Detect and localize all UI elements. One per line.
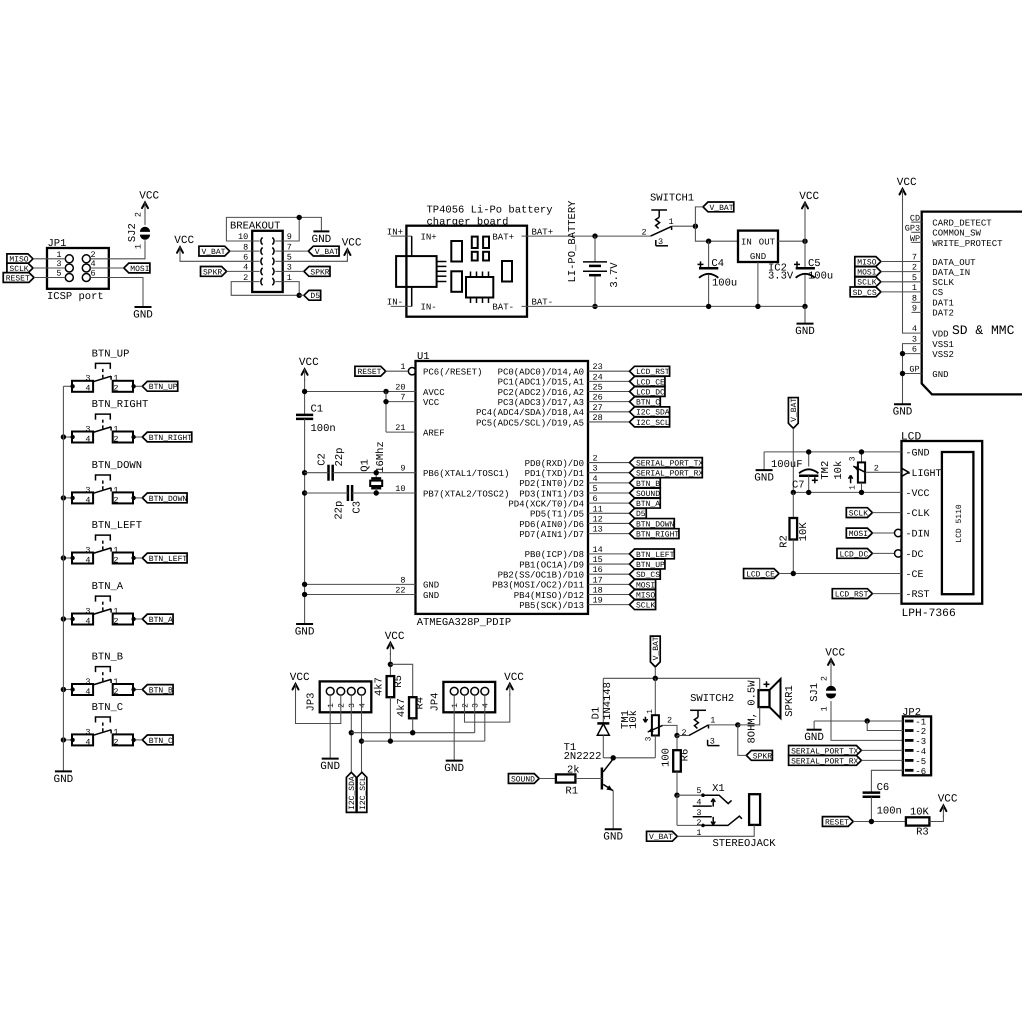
TP4056 usb connector drawing — [396, 236, 446, 306]
svg-text:BTN_UP: BTN_UP — [92, 348, 130, 360]
svg-text:8OHM, 0.5W: 8OHM, 0.5W — [747, 680, 759, 744]
net tag LCD_RST at U1 pin 23 — [630, 366, 670, 377]
svg-text:SWITCH2: SWITCH2 — [690, 693, 734, 705]
resistor R2 10K — [778, 492, 810, 573]
svg-text:4: 4 — [85, 434, 90, 444]
wire speaker bottom to junction — [738, 707, 760, 725]
svg-text:3: 3 — [85, 727, 90, 737]
svg-text:PC3(ADC3)/D17,A3: PC3(ADC3)/D17,A3 — [498, 398, 584, 408]
svg-text:1: 1 — [327, 703, 336, 708]
wire TM2 wiper to LIGHT — [865, 471, 901, 473]
wire R3 to VCC — [929, 816, 943, 822]
net tag BTN_RIGHT at U1 pin 13 — [630, 529, 680, 540]
JP4 pin numbers — [451, 703, 491, 708]
resistor R1 2k — [556, 764, 580, 797]
svg-text:1: 1 — [113, 545, 118, 555]
svg-text:JP1: JP1 — [48, 238, 67, 250]
svg-text:C7: C7 — [792, 480, 805, 492]
svg-text:ICSP port: ICSP port — [47, 291, 104, 303]
svg-text:3: 3 — [85, 485, 90, 495]
svg-text:-DC: -DC — [906, 550, 924, 561]
junction speaker node — [735, 722, 740, 727]
net tag LCD_DC at U1 pin 25 — [630, 387, 666, 398]
junction C7 top — [806, 449, 811, 454]
svg-text:GND: GND — [423, 591, 439, 601]
svg-text:R4: R4 — [415, 697, 427, 710]
svg-text:GND: GND — [320, 761, 340, 773]
wire U1 pin 17 to tag — [588, 583, 630, 585]
svg-text:D5: D5 — [310, 292, 320, 301]
wire audio bottom link — [603, 757, 655, 759]
wire VSS1 — [903, 335, 954, 405]
svg-text:10K: 10K — [910, 807, 930, 819]
wire U1 pin 5 to tag — [588, 492, 630, 494]
svg-text:PB6(XTAL1/TOSC1): PB6(XTAL1/TOSC1) — [423, 469, 509, 479]
svg-text:GND: GND — [295, 626, 315, 638]
svg-text:-CLK: -CLK — [906, 509, 930, 520]
net tag SOUND — [508, 774, 539, 785]
junction switch1 out — [693, 224, 698, 229]
svg-text:V_BAT: V_BAT — [710, 204, 734, 213]
U1 right pin names — [476, 368, 584, 611]
svg-text:GND: GND — [750, 252, 766, 262]
wire LCD GND row — [764, 451, 901, 453]
junction battery bottom — [592, 304, 597, 309]
junction battery top — [592, 233, 597, 238]
resistor R3 10K — [906, 807, 930, 839]
svg-text:-6: -6 — [915, 767, 926, 777]
wire U1 pin 15 to tag — [588, 563, 630, 565]
junction TM2 top — [859, 449, 864, 454]
net tag D5 breakout — [304, 290, 321, 301]
junction C5 bottom — [802, 304, 807, 309]
wire audio top rail — [603, 677, 759, 679]
TP4056 pin BAT- — [492, 298, 553, 313]
ground GND below JP4 pin1 — [444, 761, 464, 775]
wire BTN_C to tag — [131, 738, 142, 742]
svg-text:R2: R2 — [778, 535, 790, 548]
svg-text:VCC: VCC — [423, 398, 440, 408]
net tag BTN_LEFT — [142, 553, 187, 564]
svg-text:LCD: LCD — [901, 432, 922, 444]
svg-text:GP3: GP3 — [905, 224, 920, 234]
lcd pin names — [906, 448, 942, 601]
ground GND at T1 emitter — [603, 829, 623, 843]
wire BTN_DOWN to tag — [131, 496, 142, 500]
svg-text:R3: R3 — [916, 826, 929, 838]
ground GND at regulator rail — [795, 324, 815, 338]
svg-text:2: 2 — [681, 728, 686, 738]
svg-text:GND: GND — [53, 774, 73, 786]
svg-text:3: 3 — [85, 545, 90, 555]
svg-text:PD3(INT1)/D3: PD3(INT1)/D3 — [519, 489, 584, 499]
svg-text:2: 2 — [912, 263, 917, 273]
power VCC above SJ1 — [825, 647, 845, 671]
wire C2 to pin9 — [333, 472, 416, 474]
TP4056 resistor drawings — [451, 241, 462, 292]
wire BTN_LEFT to tag — [131, 556, 142, 560]
svg-text:MOSI: MOSI — [130, 265, 149, 274]
wire JP4 pin1 to GND — [453, 695, 455, 760]
wire BREAKOUT pin2 bottom loop — [231, 282, 299, 296]
svg-text:JP3: JP3 — [306, 693, 318, 712]
wire BTN_UP to tag — [131, 384, 142, 388]
svg-text:6: 6 — [912, 345, 917, 355]
net tag SPKR at speaker — [746, 751, 772, 762]
svg-text:GND: GND — [133, 309, 153, 321]
power VCC at regulator — [799, 191, 819, 215]
net tag SCLK — [7, 263, 33, 274]
svg-text:PB7(XTAL2/TOSC2): PB7(XTAL2/TOSC2) — [423, 489, 509, 499]
net tag SD_CS at SD — [850, 287, 881, 298]
wire rail to C2 — [305, 472, 329, 474]
svg-text:PC6(/RESET): PC6(/RESET) — [423, 368, 482, 378]
svg-text:BTN_LEFT: BTN_LEFT — [92, 520, 142, 532]
svg-text:1: 1 — [113, 424, 118, 434]
junction V_BAT VCC row — [791, 490, 796, 495]
junction R2 bottom — [791, 571, 796, 576]
ground GND at JP2 — [804, 721, 824, 744]
wire AVCC drop to VCC pin and AREF — [386, 392, 416, 433]
wire BTN_RIGHT to bus — [63, 435, 74, 439]
wire C1 to gnd rail — [304, 419, 306, 624]
wire button ground bus — [62, 386, 64, 771]
svg-text:TM2: TM2 — [820, 461, 832, 480]
svg-text:V_BAT: V_BAT — [790, 398, 799, 422]
svg-text:SOUND: SOUND — [511, 775, 535, 784]
svg-text:GND: GND — [444, 763, 464, 775]
JP3 pin circles — [326, 687, 365, 695]
wire VCC to pin6 — [180, 257, 252, 261]
svg-text:PC4(ADC4/SDA)/D18,A4: PC4(ADC4/SDA)/D18,A4 — [476, 408, 584, 418]
junction Q1 bottom — [374, 490, 379, 495]
wire RESET to pin1 bubble — [386, 370, 409, 372]
net tag I2C_SCL at U1 pin 28 — [630, 417, 670, 428]
svg-text:V_BAT: V_BAT — [649, 833, 673, 842]
TP4056 pin BAT+ — [492, 227, 553, 242]
svg-text:WRITE_PROTECT: WRITE_PROTECT — [932, 239, 1003, 249]
net tag BTN_C — [142, 735, 173, 746]
SD pin CD CARD_DETECT — [910, 214, 992, 229]
net tag MISO at SD — [855, 257, 881, 268]
junction Q1 top — [374, 470, 379, 475]
svg-text:SPKR: SPKR — [310, 268, 329, 277]
svg-text:D1: D1 — [590, 707, 602, 720]
svg-text:GND: GND — [932, 370, 948, 380]
svg-text:IN+: IN+ — [421, 232, 437, 242]
wire VSS2 — [903, 345, 954, 360]
wire R6 to jack — [676, 772, 678, 796]
junction jack pin5 — [674, 793, 679, 798]
svg-text:VCC: VCC — [504, 672, 524, 684]
junction AVCC drop — [383, 389, 388, 394]
wire SCLK to SCLK pin — [881, 273, 955, 288]
svg-text:100n: 100n — [877, 805, 902, 817]
wire VCC to VDD — [903, 199, 949, 340]
capacitor C1 100n — [296, 403, 336, 435]
svg-text:BAT+: BAT+ — [492, 232, 514, 242]
diode D1 1N4148 — [590, 678, 614, 758]
svg-text:BTN_LEFT: BTN_LEFT — [149, 555, 188, 564]
svg-text:PD7(AIN1)/D7: PD7(AIN1)/D7 — [519, 530, 584, 540]
svg-text:2: 2 — [819, 676, 829, 681]
net tag V_BAT at jack — [647, 831, 678, 842]
svg-text:-4: -4 — [915, 747, 926, 757]
svg-text:GND: GND — [893, 407, 913, 419]
capacitor C7 100uF — [771, 452, 818, 493]
wire VCC to JP3 pin2 — [296, 694, 341, 724]
svg-text:2: 2 — [641, 227, 646, 237]
resistor R6 100 — [660, 736, 691, 772]
svg-text:4: 4 — [912, 324, 917, 334]
junction TM2 bottom — [859, 490, 864, 495]
svg-text:BTN_B: BTN_B — [149, 686, 173, 695]
wire BAT+ rail to switch — [542, 235, 651, 237]
net tag V_BAT right breakout — [308, 246, 339, 257]
ground GND below JP1 — [133, 307, 153, 321]
net tag BTN_A — [142, 614, 173, 625]
switch SWITCH2 — [681, 693, 734, 746]
wire i2c sda horizontal — [351, 732, 474, 734]
lcd DC bubble — [895, 550, 902, 557]
junction T1 collector — [611, 755, 616, 760]
svg-text:SPKR: SPKR — [203, 268, 222, 277]
junction R5 top — [388, 662, 393, 667]
wire U1 pin 12 to tag — [588, 522, 630, 524]
svg-text:VDD: VDD — [932, 330, 948, 340]
wire junction down to IC2 IN — [695, 226, 738, 241]
wire switch1 pin1 to junction — [672, 225, 696, 227]
junction rail AVCC — [302, 389, 307, 394]
svg-text:1: 1 — [819, 706, 829, 711]
svg-text:SD_CS: SD_CS — [853, 289, 877, 298]
svg-text:-RST: -RST — [906, 590, 930, 601]
wire R4 bottom — [412, 718, 414, 732]
wire SD_CS to CS pin — [881, 283, 943, 298]
junction R4 sda — [410, 730, 415, 735]
svg-text:10k: 10k — [628, 710, 640, 729]
net tag BTN_B at U1 pin 4 — [630, 478, 661, 489]
svg-text:4k7: 4k7 — [374, 677, 386, 696]
junction C5 top — [802, 239, 807, 244]
wire MISO to JP1 pin1 — [33, 258, 65, 260]
wire gnd hook — [763, 452, 765, 470]
svg-text:1: 1 — [113, 677, 118, 687]
svg-text:BREAKOUT: BREAKOUT — [230, 221, 280, 233]
svg-text:3: 3 — [85, 424, 90, 434]
svg-text:-2: -2 — [915, 727, 926, 737]
svg-text:-DIN: -DIN — [906, 529, 930, 540]
svg-text:VCC: VCC — [290, 672, 310, 684]
wire U1 pin 2 to tag — [588, 462, 630, 464]
wire C3 to pin10 — [352, 492, 415, 494]
svg-text:IN-: IN- — [421, 303, 437, 313]
svg-text:GP: GP — [909, 365, 919, 375]
svg-text:C1: C1 — [311, 403, 324, 415]
svg-text:1: 1 — [710, 715, 715, 725]
net tag MOSI — [124, 263, 150, 274]
svg-text:V_BAT: V_BAT — [652, 636, 661, 660]
svg-text:JP4: JP4 — [430, 693, 442, 712]
button BTN_A — [72, 581, 133, 626]
net tag V_BAT above LCD — [788, 398, 799, 429]
wire TM1 wiper to switch2 junction — [663, 725, 677, 735]
svg-text:GND: GND — [804, 732, 824, 744]
wire JP4 pin2 to VCC — [465, 694, 510, 722]
wire JP1 pin6 to GND — [90, 278, 143, 308]
SD pin GP3 COMMON_SW — [905, 224, 982, 239]
svg-text:R1: R1 — [565, 785, 578, 797]
power VCC at U1 — [299, 357, 319, 381]
wire BREAKOUT pin1 to bottom loop — [283, 282, 300, 296]
svg-text:4: 4 — [358, 703, 367, 708]
wire BTN_A to bus — [63, 617, 74, 621]
svg-text:3.3V: 3.3V — [768, 271, 794, 283]
svg-text:PC0(ADC0)/D14,A0: PC0(ADC0)/D14,A0 — [498, 368, 584, 378]
svg-text:3: 3 — [85, 677, 90, 687]
SD pin DAT1 — [912, 293, 954, 308]
svg-text:LCD_RST: LCD_RST — [835, 591, 869, 600]
junction bus BTN_RIGHT — [61, 434, 66, 439]
svg-text:2: 2 — [134, 212, 144, 217]
TP4056 right rect drawing — [502, 261, 512, 282]
wire switch2 out — [709, 724, 738, 726]
wire GND pin8 — [305, 583, 416, 585]
svg-text:-1: -1 — [915, 718, 926, 728]
svg-text:SPKR1: SPKR1 — [784, 685, 796, 717]
wire VCC down through C5 — [804, 213, 806, 241]
SD pin WP WRITE_PROTECT — [910, 234, 1003, 249]
power VCC left of JP3 — [290, 672, 310, 696]
svg-text:PB5(SCK)/D13: PB5(SCK)/D13 — [519, 601, 584, 611]
svg-text:C4: C4 — [711, 258, 724, 270]
svg-text:22p: 22p — [333, 501, 345, 520]
connector SD & MMC box — [922, 212, 1022, 395]
wire R5 bottom — [389, 697, 391, 741]
wire junction to V_BAT tag — [695, 207, 703, 226]
net tag BTN_A at U1 pin 6 — [630, 498, 661, 509]
connector BREAKOUT box — [230, 221, 283, 292]
svg-text:-LIGHT: -LIGHT — [906, 469, 942, 480]
svg-text:DATA_IN: DATA_IN — [932, 268, 970, 278]
svg-text:1N4148: 1N4148 — [602, 682, 614, 720]
wire MOSI to DIN bubble — [872, 532, 894, 534]
svg-text:PC2(ADC2)/D16,A2: PC2(ADC2)/D16,A2 — [498, 388, 584, 398]
svg-text:VCC: VCC — [299, 357, 319, 369]
net tag BTN_RIGHT — [142, 432, 192, 443]
ground GND at LCD — [754, 470, 774, 484]
svg-text:VSS1: VSS1 — [932, 340, 954, 350]
net tag SOUND at U1 pin 5 — [630, 488, 661, 499]
svg-text:4: 4 — [85, 384, 90, 394]
lcd screen rect LCD 5110 — [942, 452, 974, 594]
battery LI-PO_BATTERY — [567, 200, 621, 307]
BREAKOUT pin numbers — [238, 232, 292, 283]
svg-text:PD6(AIN0)/D6: PD6(AIN0)/D6 — [519, 520, 584, 530]
wire BTN_DOWN to bus — [63, 496, 74, 500]
U1 left pin numbers — [395, 362, 405, 595]
capacitor C5 100u — [794, 241, 833, 306]
svg-text:WP: WP — [910, 234, 920, 244]
wire U1 pin 19 to tag — [588, 604, 630, 606]
svg-text:OUT: OUT — [759, 237, 776, 247]
wire SOUND to R1 — [539, 778, 556, 780]
wire U1 pin 25 to tag — [588, 391, 630, 393]
junction JP3 pin3 sda — [349, 730, 354, 735]
svg-text:charger board: charger board — [427, 216, 509, 228]
net tag LCD_DC at LCD — [837, 549, 872, 560]
JP2 pins — [905, 718, 926, 777]
U1 pin1 inversion bubble — [408, 368, 415, 375]
svg-text:IN: IN — [741, 237, 752, 247]
wire junction to switch2 — [677, 735, 689, 737]
svg-text:PD4(XCK/T0)/D4: PD4(XCK/T0)/D4 — [508, 499, 584, 509]
svg-text:VCC: VCC — [825, 647, 845, 659]
svg-text:-GND: -GND — [906, 448, 930, 459]
svg-text:PD0(RXD)/D0: PD0(RXD)/D0 — [525, 459, 584, 469]
svg-text:BTN_DOWN: BTN_DOWN — [92, 460, 142, 472]
connector JP1 ICSP port box — [47, 238, 109, 303]
junction C6 reset — [869, 819, 874, 824]
svg-text:DAT2: DAT2 — [932, 309, 954, 319]
junction C7 bottom — [806, 490, 811, 495]
net tag LCD_CE at U1 pin 24 — [630, 376, 666, 387]
net tag BTN_UP at U1 pin 15 — [630, 559, 666, 570]
capacitor C4 100u — [698, 241, 738, 306]
wire U1 pin 24 to tag — [588, 380, 630, 382]
svg-text:2: 2 — [113, 737, 118, 747]
svg-text:GND: GND — [795, 326, 815, 338]
wire U1 pin 27 to tag — [588, 411, 630, 413]
wire SCLK to CLK — [872, 512, 901, 514]
svg-text:BTN_A: BTN_A — [92, 581, 124, 593]
junction bus BTN_B — [61, 687, 66, 692]
svg-text:PB3(MOSI/OC2)/D11: PB3(MOSI/OC2)/D11 — [492, 581, 584, 591]
svg-text:9: 9 — [912, 303, 917, 313]
svg-text:IN-: IN- — [387, 298, 403, 308]
svg-text:RESET: RESET — [825, 818, 849, 827]
svg-text:LCD_DC: LCD_DC — [839, 550, 868, 559]
power VCC at R3 — [938, 794, 958, 818]
wire R1 to base — [575, 778, 602, 780]
junction audio rail vbat — [653, 676, 658, 681]
svg-text:PB2(SS/OC1B)/D10: PB2(SS/OC1B)/D10 — [498, 571, 584, 581]
net tag SERIAL_PORT_RX at U1 pin 3 — [630, 468, 704, 479]
JP3 pin numbers — [327, 703, 367, 708]
regulator IC2 box — [738, 231, 794, 283]
svg-text:AREF: AREF — [423, 428, 445, 438]
svg-text:VCC: VCC — [139, 191, 159, 203]
SD pin GP GND — [903, 365, 949, 380]
net tag V_BAT above audio — [650, 636, 661, 667]
capacitor C2 22p — [316, 448, 346, 481]
wire BREAKOUT pin10 top loop to GND — [226, 217, 321, 241]
lcd LIGHT input triangle — [902, 468, 909, 476]
svg-text:SJ1: SJ1 — [809, 683, 821, 702]
svg-text:PD2(INT0)/D2: PD2(INT0)/D2 — [519, 479, 584, 489]
svg-text:PD1(TXD)/D1: PD1(TXD)/D1 — [525, 469, 584, 479]
power VCC at SD — [897, 177, 917, 201]
svg-text:VCC: VCC — [938, 794, 958, 806]
svg-text:VCC: VCC — [385, 631, 405, 643]
solder jumper SJ2 — [127, 212, 150, 249]
svg-text:1: 1 — [646, 709, 655, 714]
svg-text:SCLK: SCLK — [932, 278, 954, 288]
svg-text:LI-PO_BATTERY: LI-PO_BATTERY — [567, 200, 579, 283]
svg-text:DATA_OUT: DATA_OUT — [932, 258, 976, 268]
svg-text:4: 4 — [85, 555, 90, 565]
svg-text:3: 3 — [472, 703, 481, 708]
